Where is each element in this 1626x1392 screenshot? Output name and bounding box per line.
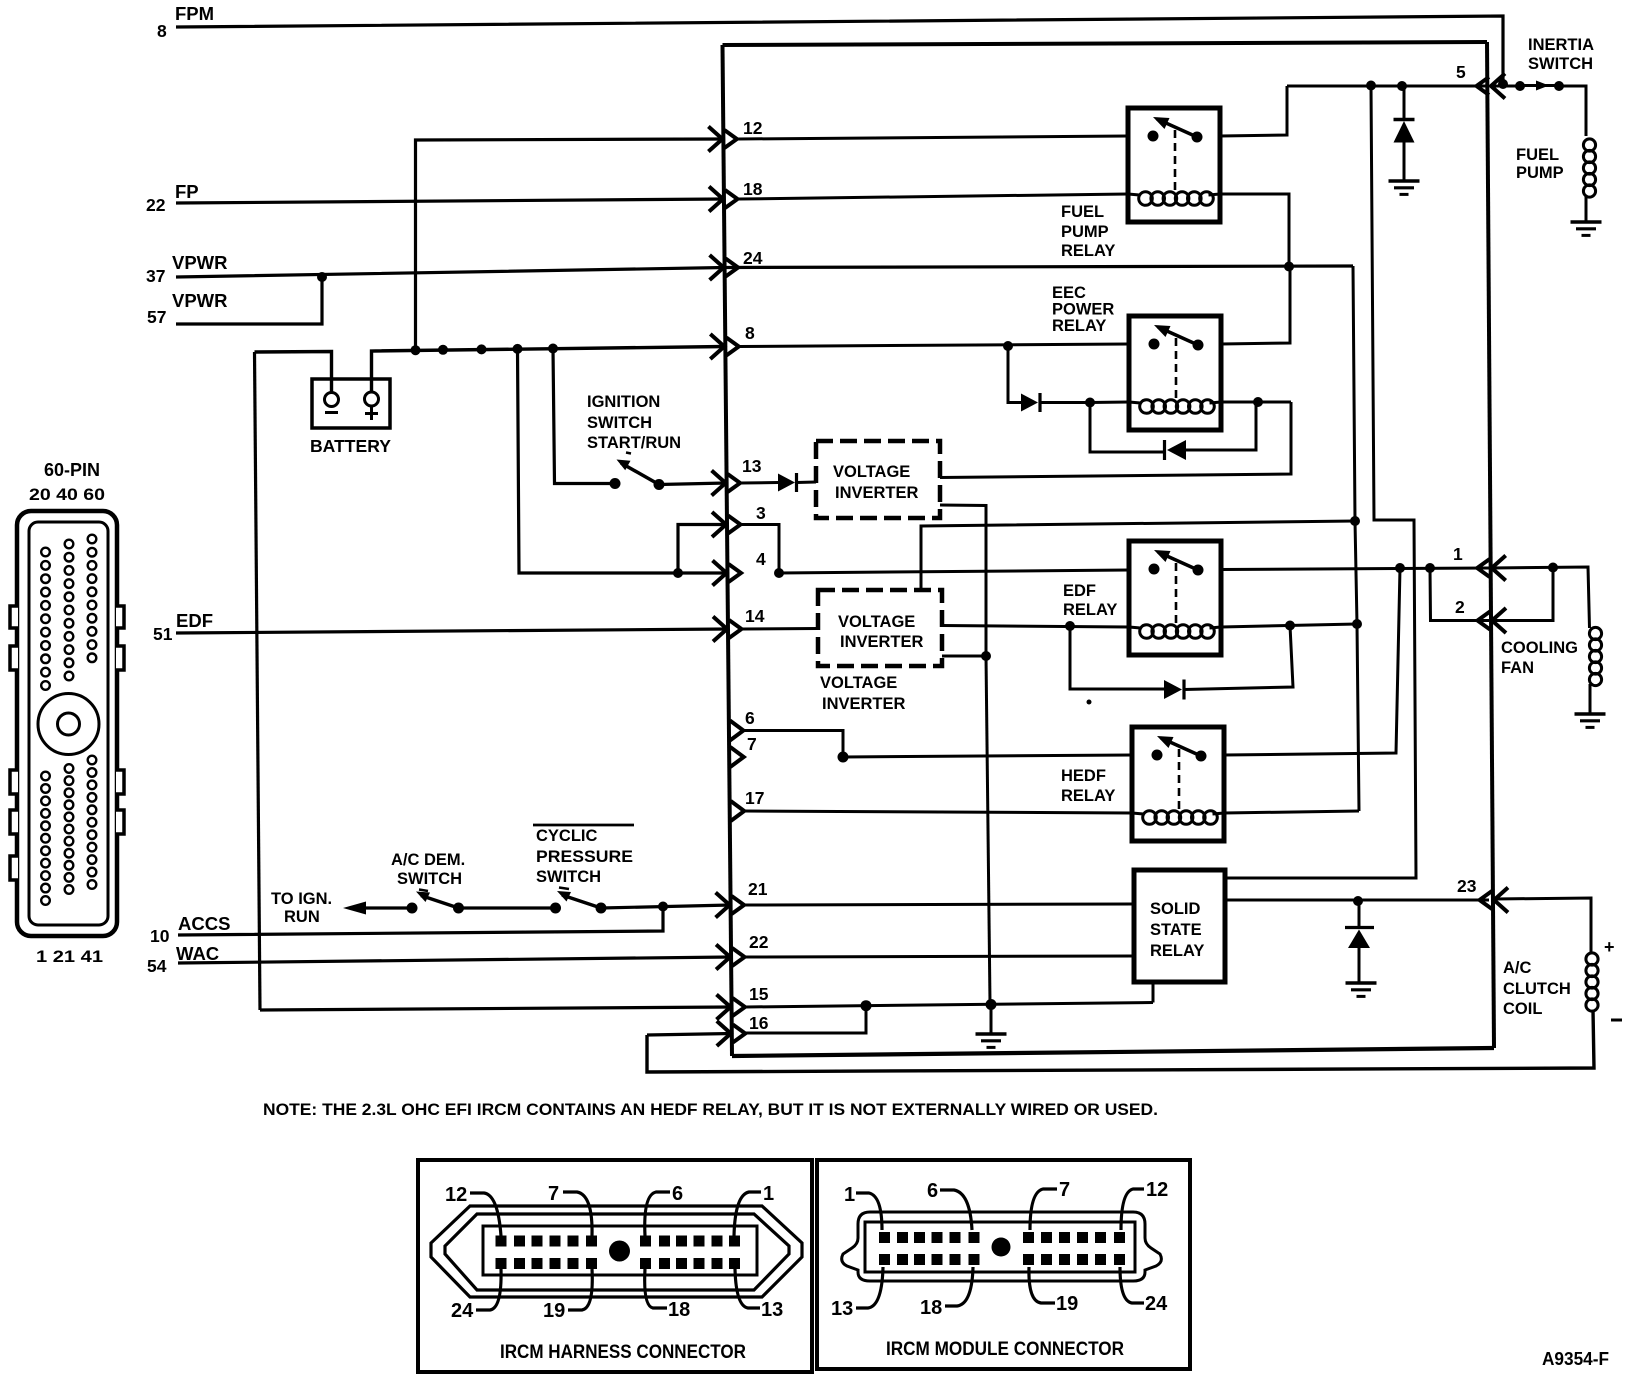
wire pin 5 junction down to solid state relay [1225,86,1416,879]
junction EEC coil left / flyback [1085,398,1095,408]
harness connector body outline [431,1206,802,1297]
svg-text:24: 24 [1145,1293,1168,1315]
svg-text:PUMP: PUMP [1516,164,1564,182]
svg-text:7: 7 [548,1183,559,1205]
IRCM harness connector frame [418,1160,812,1372]
junction pin8/EEC coil diode [1003,341,1013,351]
wire ground node drop [990,1005,993,1034]
connector J1 left tab 4 [10,810,18,834]
wire bottom return bus (pin 16 to A/C clutch coil -) [647,1010,1594,1072]
svg-text:3: 3 [756,503,766,523]
wire pin 5 to inertia switch [1490,85,1520,88]
connector J1 right tab 4 [116,810,124,834]
svg-text:SWITCH: SWITCH [587,414,652,432]
wire EEC flyback loop left leg [1090,403,1165,453]
wire pin 1 to cooling fan [1491,567,1590,628]
leader harness pin 1 [734,1192,761,1236]
connector J1 left tab 2 [10,646,18,670]
svg-text:FUEL: FUEL [1061,203,1104,221]
svg-text:SWITCH: SWITCH [1528,55,1593,73]
A/C demand switch blade [421,896,459,909]
A/C clutch coil L1 [1586,953,1598,965]
wire EDF from EEC pin 51 to IRCM pin 14 [176,629,728,633]
junction EDF coil right / flyback [1285,621,1295,631]
wire pin 4 to EDF relay contact [779,570,1129,573]
svg-text:23: 23 [1457,876,1477,896]
diode CR2 series into EEC relay coil [1021,394,1038,412]
svg-text:18: 18 [668,1299,690,1321]
cooling fan M2 coil [1589,627,1601,639]
svg-text:10: 10 [150,926,170,946]
junction pin1/HEDF contact [1395,563,1405,573]
wire battery negative to IRCM pin 15 [260,1007,732,1010]
wire pin 17 to HEDF relay coil [744,811,1132,813]
svg-text:IRCM HARNESS CONNECTOR: IRCM HARNESS CONNECTOR [500,1341,746,1363]
leader harness pin 24 [476,1269,501,1310]
pin 8 connector chevron [710,334,724,359]
svg-text:51: 51 [153,624,173,644]
wire IRCM pin 16 external [647,1034,732,1036]
svg-text:16: 16 [749,1013,769,1033]
wire pin 5 feed line [1287,85,1489,88]
wire pin 15 ground net [746,1003,1153,1008]
svg-text:6: 6 [672,1183,683,1205]
svg-text:FUEL: FUEL [1516,146,1559,164]
wire fuel pump relay coil to VPWR line [1220,194,1289,267]
ignition switch blade [621,463,659,485]
inertia switch S1 contacts [1515,81,1525,91]
svg-text:RELAY: RELAY [1150,942,1204,960]
wire VPWR from EEC pin 57 up to pin 37 line [176,277,322,324]
junction FPM/pin5 [1498,79,1508,89]
pin 12 connector chevron [708,127,722,152]
leader module pin 12 [1121,1189,1144,1230]
label - (A/C clutch) [1611,1019,1622,1022]
svg-text:6: 6 [745,708,755,728]
wire EEC relay contact to VPWR line [1221,267,1290,345]
svg-text:19: 19 [543,1300,565,1322]
wire pin 23 to A/C clutch coil [1494,898,1591,953]
IRCM module boundary box [723,42,1488,45]
junction ACCS/switch node [658,902,668,912]
junction main ground node [986,999,997,1010]
leader module pin 6 [940,1190,972,1230]
ground G5 (cooling fan) [1575,712,1606,715]
ground G3 (IRCM internal ground) [976,1032,1007,1035]
svg-text:INVERTER: INVERTER [835,484,919,502]
wire bus to IRCM pin 12 [416,139,724,350]
svg-text:5: 5 [1456,62,1466,82]
solid state relay K5 box [1134,870,1225,982]
svg-text:1 21 41: 1 21 41 [36,947,103,966]
svg-text:EEC: EEC [1052,284,1086,302]
svg-text:CLUTCH: CLUTCH [1503,980,1571,998]
pin 1 connector chevron [1492,556,1506,581]
wire pin 21 to solid state relay [745,904,1134,905]
junction bus B [438,345,448,355]
pin 13 connector chevron [712,471,726,496]
svg-text:NOTE: THE 2.3L OHC EFI IRCM CO: NOTE: THE 2.3L OHC EFI IRCM CONTAINS AN … [263,1100,1158,1119]
wire EDF relay contact to pin 1 [1221,568,1489,570]
svg-text:8: 8 [157,21,167,41]
junction EEC coil right / flyback [1253,397,1263,407]
wire HEDF relay contact to pin 1 line [1224,568,1400,755]
wire pin 6 to pin 7 tie [744,731,843,758]
voltage inverter U1 box [816,441,940,518]
svg-text:EDF: EDF [176,610,213,631]
svg-text:8: 8 [745,323,755,343]
leader module pin 24 [1120,1267,1144,1303]
svg-text:4: 4 [756,549,766,569]
svg-text:18: 18 [743,179,763,199]
wire into EEC relay coil left [1090,401,1129,405]
wire solid state relay output to pin 23 [1225,899,1489,902]
junction VPWR 37/57 [317,272,327,282]
harness connector pins [496,1236,741,1270]
svg-text:POWER: POWER [1052,301,1114,319]
svg-text:1: 1 [1453,544,1463,564]
junction bus D (to pins 3/4 feed) [513,344,523,354]
junction pin 4 line [774,568,784,578]
svg-text:20 40 60: 20 40 60 [29,485,105,504]
wire external tie pin 4 to pin 3 [678,525,727,574]
wire bus battery negative segment [255,352,332,393]
svg-text:60-PIN: 60-PIN [44,460,100,480]
wire HEDF relay coil right to VPWR drop [1224,811,1359,813]
svg-text:IRCM MODULE CONNECTOR: IRCM MODULE CONNECTOR [886,1338,1124,1360]
svg-text:FAN: FAN [1501,659,1534,677]
svg-text:21: 21 [748,879,768,899]
wire voltage inverter 2 to EDF relay coil [942,626,1129,628]
junction pin15/pin16 tie [861,1000,872,1011]
wire EDF flyback loop right leg [1184,626,1293,690]
svg-text:6: 6 [927,1180,938,1202]
svg-text:18: 18 [920,1297,942,1319]
wire ACCS from EEC pin 10 to switch chain [178,907,663,936]
ground G1 (pin 5 clamp diode) [1389,179,1420,182]
pin 24 connector chevron [710,255,724,280]
svg-text:RUN: RUN [284,908,320,926]
svg-text:37: 37 [146,266,165,286]
label CYCLIC overbar [533,824,634,827]
leader harness pin 12 [470,1193,501,1236]
wire EDF relay coil right to VPWR [1221,624,1357,627]
pin 22 connector chevron [716,945,730,970]
connector J1 left tab 3 [10,770,18,794]
leader module pin 18 [945,1267,973,1306]
battery negative terminal [325,393,339,407]
pin 21 connector chevron [716,893,730,918]
wire voltage inverter 1 lower output down [940,505,986,656]
leader module pin 19 [1029,1267,1055,1303]
leader module pin 1 [856,1193,882,1230]
svg-text:15: 15 [749,984,769,1004]
junction inverter outputs [981,651,991,661]
junction pin5/clamp diode [1397,81,1407,91]
wire A/C demand switch to cyclic pressure switch [459,906,556,909]
connector J1 left tab 5 [10,856,18,880]
connector J1 right tab 2 [116,646,124,670]
cyclic pressure switch left contact [550,903,561,914]
svg-text:22: 22 [749,932,769,952]
svg-text:22: 22 [146,195,166,215]
junction bus A (to pin 12 feed) [411,345,421,355]
junction bus E (to ignition switch feed) [548,344,558,354]
wire EEC relay coil right [1221,401,1291,404]
IRCM module connector frame [817,1160,1190,1369]
wire bus to ignition switch [553,349,615,484]
svg-text:VOLTAGE: VOLTAGE [833,463,910,481]
svg-text:IGNITION: IGNITION [587,393,660,411]
pin 16 connector chevron [717,1021,731,1046]
pin 15 connector chevron [717,995,731,1020]
pin 7 connector chevron [730,747,744,767]
svg-text:INERTIA: INERTIA [1528,36,1594,54]
leader harness pin 7 [563,1192,592,1236]
wire EEC flyback loop right leg [1186,402,1256,450]
wire pin 14 to voltage inverter 2 [743,627,818,631]
svg-text:STATE: STATE [1150,921,1202,939]
svg-text:+: + [1604,937,1615,957]
harness connector center post [609,1241,630,1262]
junction bus C [477,344,487,354]
pin 2 connector chevron [1492,608,1506,633]
wire bus to IRCM pin 4 [518,349,728,573]
wire pin 3 to pin 4 internal [742,525,779,574]
svg-text:SWITCH: SWITCH [536,868,601,886]
svg-text:ACCS: ACCS [178,913,230,934]
voltage inverter U2 box [818,590,942,666]
svg-text:12: 12 [1146,1179,1168,1201]
relay K2 EEC POWER RELAY [1129,316,1221,430]
diode CR5 EDF relay flyback [1164,680,1182,699]
svg-text:VPWR: VPWR [172,290,228,311]
ground G4 (fuel pump) [1571,220,1602,223]
wire EDF flyback loop left leg [1070,626,1164,689]
svg-text:INVERTER: INVERTER [840,633,924,651]
relay K3 EDF RELAY [1129,541,1221,655]
relay K4 HEDF RELAY [1132,727,1224,841]
A/C demand switch left contact [407,903,418,914]
wire pin 2 external tie [1491,568,1553,621]
junction VPWR/fuel pump relay coil [1284,262,1294,272]
svg-text:57: 57 [147,307,166,327]
connector J1 right tab 3 [116,770,124,794]
ignition switch contact right [654,479,665,490]
svg-text:TO IGN.: TO IGN. [271,890,332,908]
wire EEC coil right down to voltage inverter 1 output [940,402,1291,478]
wire pin 13 to diode [741,481,778,485]
battery positive terminal [365,392,379,406]
svg-text:PRESSURE: PRESSURE [536,848,633,866]
fuel pump M1 coil [1583,139,1595,151]
leader harness pin 19 [568,1269,592,1310]
svg-text:FPM: FPM [175,3,214,24]
pin 6 connector chevron [730,721,744,741]
svg-text:VOLTAGE: VOLTAGE [820,674,897,692]
wire voltage inverter 2 lower output [942,655,988,658]
junction VPWR/voltage inverter 2 feed [1350,516,1360,526]
wire inverter output down to ground node [986,656,990,1003]
junction pin1/pin2 external tie [1548,563,1558,573]
svg-text:PUMP: PUMP [1061,223,1109,241]
wire VPWR drop to relay coils [1353,266,1359,811]
module connector pin field [865,1222,1135,1272]
svg-text:13: 13 [742,456,762,476]
wire WAC from EEC pin 54 to IRCM pin 22 [178,957,731,963]
cyclic pressure switch right contact [596,903,607,914]
svg-text:SWITCH: SWITCH [397,870,462,888]
leader harness pin 13 [735,1269,760,1308]
svg-text:VPWR: VPWR [172,252,228,273]
leader module pin 13 [856,1267,883,1308]
svg-text:7: 7 [1059,1179,1070,1201]
svg-text:12: 12 [445,1184,467,1206]
pin 3 connector chevron [712,512,726,537]
wire pin 1 to pin 2 internal tie [1430,568,1489,621]
pin 17 connector chevron [731,801,745,821]
diode CR4 after pin 13 [778,474,795,492]
wire pin 7 to HEDF relay contact [843,755,1132,757]
svg-text:RELAY: RELAY [1061,242,1115,260]
svg-text:2: 2 [1455,597,1465,617]
svg-text:13: 13 [761,1299,783,1321]
junction pins 6/7 [838,752,849,763]
wire fuel pump relay output to pin 5 line [1220,86,1287,136]
junction VPWR/EDF relay coil [1352,619,1362,629]
svg-text:24: 24 [743,248,763,268]
svg-text:13: 13 [831,1298,853,1320]
svg-text:BATTERY: BATTERY [310,436,391,456]
svg-text:HEDF: HEDF [1061,767,1106,785]
pin 5 connector chevron [1491,74,1505,99]
svg-text:INVERTER: INVERTER [822,695,906,713]
svg-text:SOLID: SOLID [1150,900,1201,918]
pin 18 connector chevron [709,187,723,212]
wire inertia switch to fuel pump [1559,86,1586,136]
junction pin5/SSR feed [1366,81,1376,91]
svg-text:14: 14 [745,606,765,626]
leader harness pin 18 [645,1269,667,1308]
pin 14 connector chevron [713,617,727,642]
connector J1 pin holes [41,535,96,905]
junction EDF coil left / flyback [1065,621,1075,631]
svg-text:WAC: WAC [176,943,219,964]
module connector center post [992,1238,1011,1257]
A/C demand switch right contact [453,903,464,914]
leader harness pin 6 [645,1192,670,1236]
svg-text:EDF: EDF [1063,582,1096,600]
svg-text:A/C: A/C [1503,959,1532,977]
wire bus battery positive segment to IRCM pin 8 [372,347,726,393]
ignition switch contact left [610,478,621,489]
svg-text:A/C DEM.: A/C DEM. [391,851,465,869]
harness connector pin field [483,1226,757,1275]
svg-text:COIL: COIL [1503,1000,1542,1018]
svg-text:1: 1 [763,1183,774,1205]
svg-text:RELAY: RELAY [1052,317,1106,335]
svg-text:7: 7 [747,734,757,754]
junction pin23/clamp diode [1353,896,1363,906]
svg-text:FP: FP [175,181,199,202]
module connector body outline [842,1212,1162,1281]
connector J1 left tab 1 [10,606,18,628]
wire VPWR from EEC pin 37 to IRCM pin 24 and relay feeds [176,266,1353,277]
pin 23 connector chevron [1494,888,1508,913]
EEC 60-pin connector J1 outline [17,511,117,936]
battery B1 case [312,379,390,428]
svg-text:24: 24 [451,1300,474,1322]
svg-text:RELAY: RELAY [1061,787,1115,805]
junction pin4 external [673,568,683,578]
diode CR6 clamp on pin 23 line [1358,901,1361,927]
wire pin 8 junction down to series diode [1008,346,1021,403]
wire FP from EEC pin 22 to IRCM pin 18 [176,199,724,203]
diode CR1 clamp on pin 5 line [1403,86,1406,119]
wire VPWR to voltage inverter 2 input [921,521,1355,590]
svg-text:19: 19 [1056,1293,1078,1315]
wire pin 18 to fuel pump relay coil [739,194,1128,199]
svg-text:RELAY: RELAY [1063,601,1117,619]
svg-text:12: 12 [743,118,763,138]
module connector pins [879,1232,1125,1265]
diode CR3 EEC relay flyback [1163,440,1166,460]
wire FPM net from EEC pin 8 to inertia switch node [176,16,1503,83]
pin 4 connector chevron [713,561,727,586]
ground G2 (pin 23 clamp diode) [1346,981,1377,984]
relay K1 FUEL PUMP RELAY [1128,108,1220,222]
artifact dot [1087,700,1092,705]
wire pin 16 tie up to pin 15 [746,1006,866,1033]
svg-text:CYCLIC: CYCLIC [536,827,598,845]
wire ground net to solid state relay [1152,982,1155,1003]
wire pin 12 to fuel pump relay contact [738,136,1128,139]
svg-text:A9354-F: A9354-F [1542,1348,1609,1369]
connector J1 right tab 1 [116,606,124,628]
wire pin 8 to EEC power relay contact [740,344,1129,347]
connector J1 center post [38,694,99,755]
wire ignition switch to IRCM pin 13 [659,483,727,485]
svg-text:1: 1 [844,1184,855,1206]
svg-text:VOLTAGE: VOLTAGE [838,613,915,631]
wire TO IGN. RUN arrow [360,906,412,909]
leader module pin 7 [1030,1189,1057,1230]
wire pin 22 to solid state relay [746,956,1134,957]
wire battery negative drop on left [255,352,261,1010]
junction pin1/pin2 tie [1425,563,1435,573]
svg-text:COOLING: COOLING [1501,639,1578,657]
cyclic pressure switch blade [562,895,601,908]
svg-text:54: 54 [147,956,167,976]
svg-text:17: 17 [745,788,764,808]
wire cyclic pressure switch to IRCM pin 21 [601,905,731,908]
svg-text:START/RUN: START/RUN [587,434,681,452]
